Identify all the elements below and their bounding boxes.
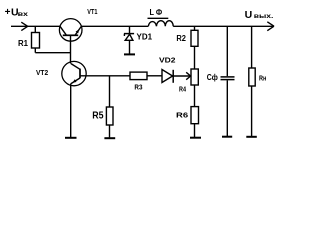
wire VT2 base net (80, 75, 130, 77)
svg-text:+: + (5, 7, 11, 18)
svg-text:VT2: VT2 (36, 68, 48, 77)
wire VT2 emitter (70, 84, 72, 138)
svg-text:U: U (245, 9, 253, 21)
ground R6 terminal (190, 137, 201, 139)
svg-text:Сф: Сф (207, 72, 218, 82)
resistor R4 potentiometer (191, 69, 198, 85)
ground R5 terminal (104, 137, 115, 139)
svg-text:вых.: вых. (254, 13, 274, 20)
resistor R5 (109, 76, 111, 107)
svg-text:вх: вх (18, 11, 29, 18)
transistor VT2 (62, 61, 86, 85)
svg-text:R4: R4 (179, 85, 187, 94)
ground Cф terminal (222, 136, 232, 138)
transistor VT1 emitter arrow (76, 29, 80, 33)
svg-text:L Ф: L Ф (150, 7, 163, 17)
capacitor Cф (226, 26, 228, 76)
node input arrow (21, 22, 27, 30)
wire rail VT1 to inductor (81, 25, 148, 27)
svg-text:VT1: VT1 (87, 7, 98, 16)
diode YD1 zener (129, 26, 131, 33)
resistor R3 (130, 72, 147, 80)
wire rail inductor to output (173, 25, 273, 27)
resistor R6 (191, 107, 199, 124)
node output arrow (267, 22, 274, 31)
svg-text:VD2: VD2 (159, 56, 176, 65)
ground YD1 terminal (124, 53, 135, 55)
svg-text:R5: R5 (92, 111, 104, 122)
inductor Lф (148, 21, 173, 27)
wire VD2 to R4 wiper (173, 75, 190, 77)
wire input rail (11, 25, 60, 27)
svg-text:Rн: Rн (259, 73, 266, 82)
transistor VT1 (59, 19, 82, 42)
wire R3 to VD2 (147, 75, 162, 77)
svg-text:R6: R6 (176, 111, 188, 120)
ground VT2 emitter terminal (65, 137, 77, 139)
svg-text:R3: R3 (134, 83, 142, 92)
svg-text:R2: R2 (176, 33, 186, 43)
transistor VT2 emitter arrow (72, 79, 76, 82)
resistor R2 (194, 26, 196, 30)
ground Rн terminal (246, 136, 256, 138)
svg-text:R1: R1 (18, 39, 29, 48)
svg-text:YD1: YD1 (137, 32, 153, 41)
resistor R1 (34, 26, 36, 32)
wire R1 to VT1 base (35, 52, 70, 54)
diode VD2 (162, 70, 173, 83)
resistor Rн load (251, 26, 253, 68)
